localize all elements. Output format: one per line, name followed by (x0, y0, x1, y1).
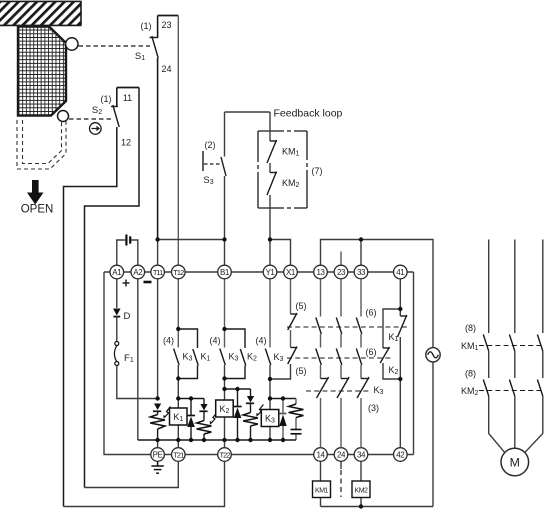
terminal T12 (172, 265, 186, 279)
svg-text:KM2: KM2 (282, 178, 300, 189)
relay coil K3 (261, 379, 279, 440)
wire A1-PE outer left leg (103, 272, 105, 455)
wire PE up (157, 440, 159, 448)
wire T11 down (157, 279, 159, 399)
svg-text:A2: A2 (133, 268, 143, 277)
svg-text:24: 24 (337, 450, 346, 459)
svg-text:13: 13 (316, 268, 325, 277)
terminal 34 (354, 448, 368, 462)
terminal B1 (218, 265, 232, 279)
svg-text:K2: K2 (389, 365, 399, 376)
wire S1 24 down to T11 node (157, 58, 159, 240)
wire AC down to bottom return (432, 362, 434, 507)
wire into box (269, 112, 271, 141)
svg-text:T21: T21 (173, 450, 184, 459)
svg-text:T11: T11 (153, 268, 163, 277)
terminal X1 (284, 265, 298, 279)
svg-text:(4): (4) (210, 336, 221, 346)
svg-text:K2: K2 (247, 352, 257, 363)
dashed link KM2 power (479, 390, 544, 392)
svg-text:K1: K1 (201, 352, 211, 363)
contact (4) K3 on Y1 (256, 336, 284, 380)
wire K2 branch bar (225, 388, 251, 390)
wire T12 down (177, 279, 179, 329)
svg-text:(4): (4) (256, 336, 267, 346)
limit switch S2 terminals 11-12 (64, 88, 140, 507)
wire S2 top bar (117, 87, 139, 89)
svg-text:(4): (4) (163, 336, 174, 346)
flyback diode K2 (233, 389, 241, 440)
svg-text:23: 23 (337, 268, 346, 277)
terminal T11 (151, 265, 165, 279)
svg-text:KM1: KM1 (461, 341, 479, 352)
contact KM1 (NC) (267, 140, 277, 163)
svg-text:KM1: KM1 (315, 488, 329, 495)
terminal A2 (131, 265, 145, 279)
terminal 42 (394, 448, 408, 462)
terminal A1 (110, 265, 124, 279)
door roller bottom (58, 111, 69, 122)
wire F1 to K1 indicator node (117, 366, 158, 399)
svg-text:(7): (7) (312, 166, 323, 176)
relay coil K1 (170, 379, 188, 441)
three-phase line L1 (489, 240, 505, 453)
guard door open (dashed outline) (17, 120, 66, 169)
LED indicator with resistor K2 branch (243, 389, 263, 440)
ground symbol under PE (151, 461, 163, 473)
junction dots (155, 237, 402, 508)
label + (123, 280, 130, 287)
wire A1 down (116, 279, 118, 308)
fuse F1 (114, 342, 133, 366)
svg-text:D: D (124, 311, 131, 322)
svg-text:24: 24 (161, 64, 171, 74)
KM2 power contact blades (483, 380, 543, 397)
wire D to F1 (116, 317, 118, 342)
snubber resistor-capacitor K3 branch (289, 399, 304, 441)
svg-text:X1: X1 (286, 268, 296, 277)
LED indicator with resistor on T11 column (150, 404, 170, 441)
wire S1 23 side (157, 16, 159, 38)
wire X1 down (290, 279, 292, 314)
flyback diode K1 (187, 399, 195, 441)
svg-text:(6): (6) (366, 308, 377, 318)
terminal T21 (172, 448, 186, 462)
terminal 23 (334, 265, 348, 279)
contactor coil KM1 (313, 461, 331, 506)
wire 41-42 outer jumper (413, 272, 415, 455)
wire S2 12 down and left to outer loop (64, 127, 117, 507)
svg-text:S2: S2 (92, 105, 102, 116)
wire bottom coil bus (138, 439, 296, 441)
output contact column 33-34 (356, 318, 369, 448)
svg-text:33: 33 (357, 268, 366, 277)
svg-text:(3): (3) (368, 403, 379, 413)
svg-text:Feedback loop: Feedback loop (274, 108, 343, 120)
svg-text:K1: K1 (389, 332, 399, 343)
wire bus 13-33-AC (321, 240, 434, 348)
wire 33 up (360, 240, 362, 266)
svg-text:OPEN: OPEN (21, 204, 54, 216)
svg-text:(1): (1) (141, 21, 152, 31)
three-phase line L2 (514, 240, 516, 449)
wire 23 to T12 (right leg) (177, 16, 179, 266)
terminal T22 (218, 448, 232, 462)
diode D (113, 309, 131, 323)
dashed actuator line to S2 (69, 118, 111, 120)
wire 24 dashed stub (340, 461, 342, 497)
supply capacitor across A1-A2 (117, 235, 138, 266)
contact group (4) K3/K1 on T12 (163, 329, 211, 379)
S3 button actuator (202, 151, 204, 171)
svg-text:T12: T12 (173, 268, 184, 277)
svg-text:PE: PE (153, 450, 163, 459)
wire Y1 down (269, 279, 271, 348)
svg-text:42: 42 (396, 450, 405, 459)
dashed actuator line to S1 (79, 45, 151, 47)
label minus (144, 281, 152, 284)
AC source (426, 348, 440, 362)
svg-text:(8): (8) (465, 369, 476, 379)
wire S2 11 side (116, 88, 118, 107)
svg-text:B1: B1 (220, 268, 230, 277)
svg-text:(5): (5) (296, 366, 307, 376)
door roller top (66, 38, 78, 50)
svg-text:Y1: Y1 (266, 268, 276, 277)
contacts K1/K2 on X1 feedback column (270, 301, 307, 379)
wire S1 top bar (158, 15, 179, 17)
svg-text:K3: K3 (274, 352, 284, 363)
svg-text:(1): (1) (101, 94, 112, 104)
wire top terminal rail (104, 271, 414, 273)
guard door closed (crosshatched) (18, 27, 66, 116)
S3 actuator dashed link (204, 163, 221, 165)
terminal PE (151, 448, 165, 462)
terminal 14 (314, 448, 328, 462)
svg-text:(5): (5) (296, 301, 307, 311)
dashed link row K2 (287, 357, 391, 359)
flyback diode K3 (279, 399, 286, 441)
wire feedback top (225, 111, 271, 113)
wire B1 down (224, 279, 226, 329)
svg-text:KM2: KM2 (355, 488, 369, 495)
KM1 power contact blades (483, 335, 543, 352)
wire Y1-X1 jumper (270, 240, 291, 266)
svg-text:(8): (8) (465, 323, 476, 333)
wire internal bus T11-B1 (158, 239, 225, 241)
svg-text:K3: K3 (229, 352, 239, 363)
wire A2 down to bottom bus (137, 279, 139, 440)
svg-text:12: 12 (121, 138, 131, 148)
svg-text:11: 11 (123, 93, 132, 103)
output contact column 13-14 (316, 318, 329, 448)
output contact column 23-24 (336, 318, 349, 448)
dashed link row K3 (306, 390, 371, 392)
wire 23 stub (340, 252, 342, 266)
contact KM2 (NC) (267, 172, 277, 196)
limit switch S1 terminals 23-24 (135, 16, 178, 266)
wire KM coils bottom return (321, 506, 434, 508)
contact S1 (NC) (150, 36, 159, 58)
svg-text:K3: K3 (374, 385, 384, 396)
svg-text:(2): (2) (205, 140, 216, 150)
wire Y1 up to node (269, 240, 271, 266)
svg-text:S3: S3 (203, 175, 213, 186)
wire T21 up (177, 440, 179, 448)
three-phase line L3 (525, 240, 543, 453)
terminal 13 (314, 265, 328, 279)
svg-text:K3: K3 (183, 352, 193, 363)
svg-text:KM1: KM1 (282, 147, 300, 158)
relay coil K2 (216, 379, 234, 441)
machine wall (hatched) (0, 1, 82, 25)
wire S2 11 leg down-left (85, 88, 140, 488)
wire S3 lower to node (224, 176, 226, 240)
reset switch S3 (203, 112, 226, 240)
svg-text:A1: A1 (112, 268, 122, 277)
actuator direction symbol (circle with arrow) (90, 123, 102, 135)
monitor contacts K1/K2 bracket 41-42 (366, 279, 408, 448)
wire S3 upper (224, 112, 226, 157)
svg-text:14: 14 (316, 450, 325, 459)
wire K3 branch bar (270, 398, 296, 400)
wire bottom terminal rail (104, 454, 414, 456)
terminal 33 (354, 265, 368, 279)
wire B1 up to node (224, 240, 226, 266)
contactor coil KM2 (352, 461, 370, 506)
terminal 24 (334, 448, 348, 462)
wire T22 to outer bottom line (64, 461, 225, 506)
feedback contactor group box (7) (258, 112, 323, 240)
svg-text:T22: T22 (219, 450, 230, 459)
contact S2 (NC) (111, 105, 119, 127)
svg-text:M: M (510, 456, 520, 470)
motor M (501, 448, 529, 476)
dashed link row K1 (287, 326, 407, 328)
wire between KM1 and KM2 (269, 163, 271, 173)
contact group (4) K3/K2 on B1 (210, 329, 258, 379)
terminal Y1 (263, 265, 277, 279)
terminal 41 (394, 265, 408, 279)
svg-text:S1: S1 (135, 51, 145, 62)
wire T21 to inner left loop (85, 461, 179, 487)
wire 13-23-33 upper stubs (321, 279, 362, 317)
wire KM2 down to node (269, 195, 271, 240)
dashed link KM1 power (479, 345, 544, 347)
wire T22 up (224, 440, 226, 448)
svg-text:41: 41 (396, 268, 405, 277)
svg-text:KM2: KM2 (461, 386, 479, 397)
svg-text:F1: F1 (124, 353, 134, 364)
contact S3 blade (221, 157, 226, 176)
wire K1 branch bar (178, 398, 204, 400)
LED indicator with resistor K1 branch (197, 399, 217, 441)
svg-text:34: 34 (357, 450, 366, 459)
wire T11 up (157, 240, 159, 266)
OPEN arrow (27, 180, 44, 205)
svg-text:(6): (6) (366, 347, 377, 357)
svg-text:23: 23 (161, 20, 171, 30)
